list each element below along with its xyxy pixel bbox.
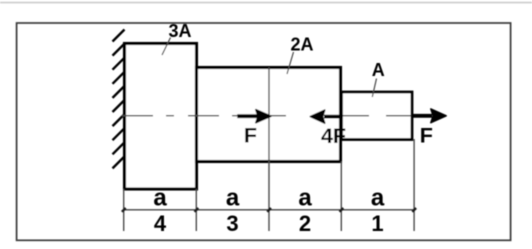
- svg-text:A: A: [372, 60, 385, 80]
- svg-text:3: 3: [226, 211, 238, 236]
- svg-text:a: a: [298, 185, 312, 212]
- svg-text:1: 1: [371, 211, 383, 236]
- svg-text:2: 2: [299, 211, 311, 236]
- force arrow 4F (at section 2/1, pointing left): [310, 110, 343, 123]
- section line between segments 3 and 2: [268, 68, 270, 232]
- wall hatching: [113, 30, 125, 169]
- block 2A (middle section): [197, 68, 341, 162]
- leader line for A: [372, 79, 376, 98]
- svg-text:3A: 3A: [168, 21, 191, 41]
- leader line for 3A: [162, 38, 171, 56]
- dimension line: [124, 209, 414, 211]
- svg-text:4F: 4F: [321, 124, 346, 148]
- extension line at wall (x=123.7): [123, 189, 125, 231]
- block A (smallest section): [342, 92, 413, 140]
- svg-text:a: a: [226, 185, 240, 212]
- svg-text:F: F: [244, 123, 257, 147]
- svg-text:4: 4: [154, 211, 167, 236]
- svg-text:a: a: [153, 185, 167, 212]
- extension line between segments 4 and 3: [195, 189, 197, 231]
- leader line for 2A: [287, 52, 294, 74]
- block 3A (largest section): [125, 44, 197, 190]
- extension line between segments 2 and 1: [340, 162, 342, 232]
- force arrow F (at section 3/2): [237, 110, 271, 123]
- top horizontal rule: [0, 2, 532, 4]
- centerline (dash-dot axis): [122, 115, 411, 117]
- extension line at free end: [413, 139, 415, 231]
- svg-text:a: a: [371, 185, 385, 212]
- dimension junction ticks: [122, 208, 416, 212]
- force arrow F (free end, pointing right): [412, 109, 447, 123]
- svg-text:F: F: [420, 124, 433, 148]
- svg-text:2A: 2A: [290, 34, 313, 54]
